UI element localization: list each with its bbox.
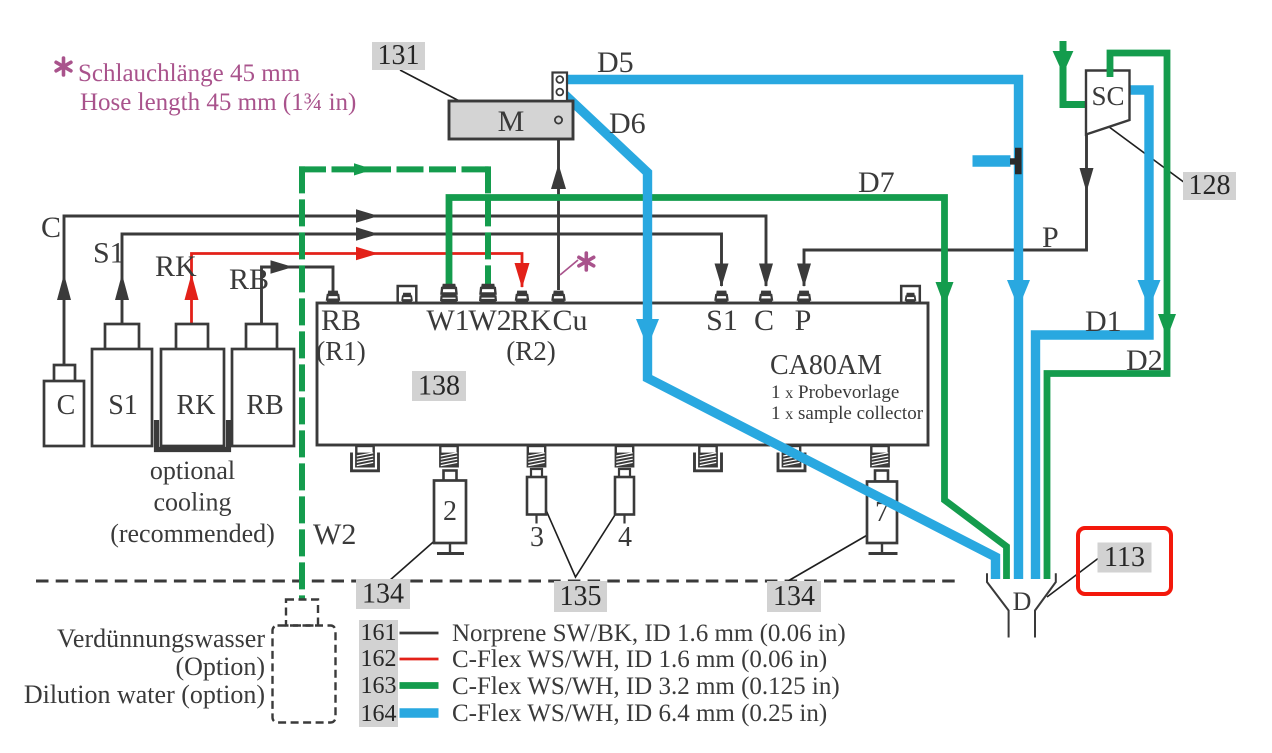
svg-text:135: 135 — [560, 581, 602, 612]
pointer line label 134 right to syringe 7 — [788, 530, 876, 581]
svg-text:D6: D6 — [609, 107, 646, 140]
svg-text:Cu: Cu — [552, 304, 587, 337]
svg-text:2: 2 — [443, 496, 457, 527]
syringe 2 — [434, 471, 466, 554]
svg-text:S1: S1 — [706, 304, 738, 337]
bottom port 4 (coil) — [616, 446, 633, 466]
arrow down into port P — [797, 264, 811, 288]
svg-text:RK: RK — [155, 250, 197, 283]
svg-text:(R1): (R1) — [316, 336, 366, 366]
arrow right on tube S1 — [356, 227, 379, 240]
svg-text:C: C — [41, 211, 61, 244]
svg-text:C-Flex WS/WH, ID 6.4 mm (0.25: C-Flex WS/WH, ID 6.4 mm (0.25 in) — [452, 700, 827, 727]
svg-text:4: 4 — [618, 522, 632, 553]
svg-text:(Option): (Option) — [175, 652, 265, 681]
connector circle D5 — [556, 76, 563, 83]
svg-text:cooling: cooling — [154, 488, 232, 517]
svg-text:162: 162 — [361, 646, 397, 672]
svg-text:138: 138 — [418, 371, 460, 402]
port C — [760, 291, 772, 304]
text optional cooling (recommended) — [110, 456, 275, 548]
svg-text:CA80AM: CA80AM — [770, 350, 882, 381]
tube W2 dilution water (green dashed) right vertical into port W2 — [485, 166, 491, 284]
svg-text:P: P — [1042, 221, 1059, 254]
pointer line asterisk to Cu tube (magenta) — [560, 260, 578, 275]
red highlight box around 113 — [1078, 528, 1171, 594]
arrow down on tube P below SC — [1080, 168, 1094, 192]
svg-text:M: M — [498, 105, 525, 138]
syringe 3 — [527, 469, 546, 553]
connector circle D6 — [556, 89, 563, 96]
arrow right on tube RB — [271, 260, 294, 273]
svg-text:W2: W2 — [313, 518, 356, 551]
port RK — [516, 291, 528, 304]
bottle S1 — [92, 324, 152, 446]
label 135 — [554, 581, 607, 612]
bottom port 6 (bracket coil) — [778, 446, 805, 471]
svg-text:163: 163 — [361, 673, 397, 699]
legend gray column — [359, 620, 398, 727]
bottom port 3 (coil) — [528, 446, 545, 466]
svg-text:D7: D7 — [858, 166, 895, 199]
svg-text:C: C — [57, 390, 76, 421]
arrow right on tube RK (red) — [356, 247, 379, 260]
pointer line label 134 left to syringe 2 — [389, 529, 448, 581]
arrow down into port C — [759, 264, 773, 288]
label 128 — [1183, 170, 1236, 201]
syringe 4 — [615, 469, 634, 553]
svg-text:W1: W1 — [426, 304, 469, 337]
svg-text:Dilution water (option): Dilution water (option) — [24, 680, 265, 709]
svg-text:RB: RB — [246, 390, 283, 421]
svg-text:134: 134 — [362, 579, 404, 610]
capped tee stub on D5 (blue) — [973, 155, 1011, 167]
bottom port 1 (bracket coil) — [352, 446, 379, 471]
green D2 inlet notch into SC — [1107, 68, 1114, 77]
asterisk footnote (magenta) — [56, 58, 71, 75]
port RB on top of analyzer — [327, 291, 339, 304]
svg-text:1 x sample collector: 1 x sample collector — [771, 403, 924, 424]
arrow up on tube S1 — [115, 274, 129, 300]
arrow up on tube RK (red) — [185, 274, 199, 300]
legend green swatch — [400, 682, 439, 689]
tube D5 (blue) from M connector right and down to funnel — [562, 80, 1019, 580]
legend black swatch — [400, 632, 439, 635]
arrow down into port RK (red) — [515, 263, 530, 288]
svg-text:3: 3 — [530, 522, 544, 553]
svg-text:RK: RK — [510, 304, 552, 337]
svg-text:D5: D5 — [597, 46, 634, 79]
port Cu — [552, 291, 564, 304]
arrow down on tube D5 (blue) — [1007, 280, 1030, 308]
svg-text:Verdünnungswasser: Verdünnungswasser — [57, 624, 265, 653]
svg-text:optional: optional — [150, 456, 235, 485]
tube D2 (green) from SC top over to right and down to funnel — [1047, 53, 1167, 579]
funnel D (sample collector inlet) — [987, 573, 1056, 637]
tube Cu (black) from port Cu up to metering unit M — [557, 120, 560, 290]
syringe 7 — [867, 471, 898, 554]
svg-text:W2: W2 — [468, 304, 511, 337]
tube D7 (green) from port W1 up and right down to funnel — [449, 198, 1007, 580]
pointer line label 128 to SC — [1097, 118, 1185, 183]
port W2 — [480, 284, 496, 304]
svg-text:S1: S1 — [108, 390, 138, 421]
pointer line label 113 to funnel — [1047, 557, 1100, 597]
metering unit M (gray box) — [449, 101, 573, 139]
arrow up on tube Cu — [551, 164, 566, 189]
black cap on D5 stub — [1010, 148, 1022, 175]
tube S1 (black) from bottle S1 to port S1 — [122, 234, 722, 349]
cooling tray bracket under bottle RK — [157, 420, 229, 450]
bottom port 2 (coil) — [440, 446, 457, 466]
M outlet connector block with two ports — [553, 73, 568, 102]
tube W2 dilution water (green dashed) horizontal — [299, 166, 489, 172]
svg-text:D1: D1 — [1085, 305, 1122, 338]
arrow down on tube D1 (blue) — [1138, 280, 1161, 308]
arrow down on tube D6 (blue) — [636, 319, 659, 347]
svg-text:128: 128 — [1189, 170, 1231, 201]
tube P (black) from SC down to port P — [804, 134, 1087, 286]
svg-text:113: 113 — [1104, 542, 1145, 573]
tube D1 (blue) from SC right side down and jog left to funnel — [1036, 90, 1150, 579]
tube RK (red) from bottle RK to port RK — [192, 254, 523, 350]
svg-text:(recommended): (recommended) — [110, 519, 275, 548]
svg-text:1 x Probevorlage: 1 x Probevorlage — [771, 382, 899, 403]
tube C (black) from bottle C to port C — [64, 216, 766, 366]
svg-text:(R2): (R2) — [506, 336, 556, 366]
pointer lines label 135 to syringes 3 and 4 — [542, 496, 627, 577]
label 134 left — [356, 579, 410, 610]
pointer line label 131 to M — [400, 70, 467, 105]
arrow up on tube C — [57, 274, 71, 300]
port P — [798, 291, 810, 304]
svg-text:D: D — [1013, 587, 1032, 616]
svg-text:134: 134 — [773, 581, 815, 612]
svg-text:D2: D2 — [1126, 344, 1163, 377]
arrow down on tube D2 (green) — [1158, 314, 1176, 338]
bottom port 5 (bracket coil) — [695, 446, 722, 471]
arrow down into port S1 — [715, 264, 729, 288]
tube RB (black) from bottle RB to port RB — [262, 267, 334, 349]
arrow down on tube D7 (green) — [936, 282, 954, 306]
svg-text:P: P — [795, 304, 812, 337]
unused square port top left — [398, 286, 417, 304]
svg-text:131: 131 — [378, 40, 420, 71]
port W1 — [441, 284, 457, 304]
svg-text:Schlauchlänge 45 mm: Schlauchlänge 45 mm — [78, 60, 301, 87]
svg-text:Norprene SW/BK, ID 1.6 mm (0.0: Norprene SW/BK, ID 1.6 mm (0.06 in) — [452, 620, 846, 647]
label 134 right — [767, 581, 821, 612]
tube W2 dilution water (green dashed) left vertical — [299, 166, 305, 600]
svg-text:S1: S1 — [93, 237, 125, 270]
label 131 — [372, 40, 425, 71]
tube D6 (blue) from M connector diagonally down to funnel — [562, 92, 996, 579]
port S1 — [715, 291, 727, 304]
arrow down on SC inlet (green) — [1053, 51, 1074, 74]
svg-text:Hose length 45 mm (1¾ in): Hose length 45 mm (1¾ in) — [80, 89, 356, 116]
bottle C — [44, 365, 84, 446]
svg-text:RK: RK — [177, 390, 216, 421]
svg-text:161: 161 — [361, 620, 397, 646]
main analyzer box CA80AM — [317, 303, 928, 445]
label 113 — [1098, 542, 1152, 573]
arrow right on dashed W2 tube (green) — [354, 163, 374, 175]
svg-text:C: C — [754, 304, 774, 337]
legend red swatch — [400, 658, 439, 661]
dashed bottle dilution water — [273, 600, 336, 723]
svg-text:RB: RB — [229, 263, 269, 296]
bottle RK — [161, 324, 224, 446]
label 138 — [412, 371, 466, 402]
bottle RB — [232, 324, 294, 446]
separator dashed line — [36, 580, 958, 583]
svg-text:164: 164 — [361, 701, 397, 727]
connector circle Cu on M — [555, 116, 562, 123]
legend blue swatch — [400, 708, 439, 717]
asterisk at Cu tube (magenta) — [579, 253, 594, 270]
tube SC inlet (green) with arrow — [1063, 41, 1087, 105]
unused square port top right — [901, 286, 920, 304]
svg-text:RB: RB — [321, 304, 361, 337]
arrow right on tube C — [356, 209, 379, 222]
svg-text:C-Flex WS/WH, ID 3.2 mm (0.125: C-Flex WS/WH, ID 3.2 mm (0.125 in) — [452, 673, 840, 700]
sample collector SC (pentagon) — [1086, 71, 1130, 135]
bottom port 7 (coil) — [871, 446, 888, 466]
svg-text:C-Flex WS/WH, ID 1.6 mm (0.06: C-Flex WS/WH, ID 1.6 mm (0.06 in) — [452, 646, 827, 673]
svg-text:SC: SC — [1091, 81, 1124, 111]
